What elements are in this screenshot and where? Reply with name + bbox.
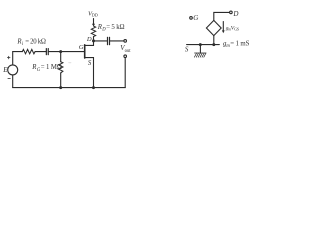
svg-text:D: D — [86, 36, 92, 43]
svg-text:E: E — [2, 67, 8, 74]
svg-text:= 1 mS: = 1 mS — [230, 41, 249, 48]
svg-text:= 1 MΩ: = 1 MΩ — [41, 64, 62, 71]
svg-text:i: i — [22, 42, 24, 47]
svg-text:out: out — [125, 49, 132, 54]
svg-text:= 20 kΩ: = 20 kΩ — [25, 39, 46, 46]
svg-text:D: D — [232, 10, 238, 18]
svg-text:G: G — [79, 44, 84, 51]
svg-text:= 5 kΩ: = 5 kΩ — [106, 24, 124, 31]
svg-text:S: S — [185, 45, 189, 53]
svg-text:G: G — [193, 14, 198, 22]
svg-text:S: S — [88, 60, 92, 67]
svg-text:GS: GS — [234, 27, 239, 31]
svg-text:DD: DD — [92, 12, 98, 17]
